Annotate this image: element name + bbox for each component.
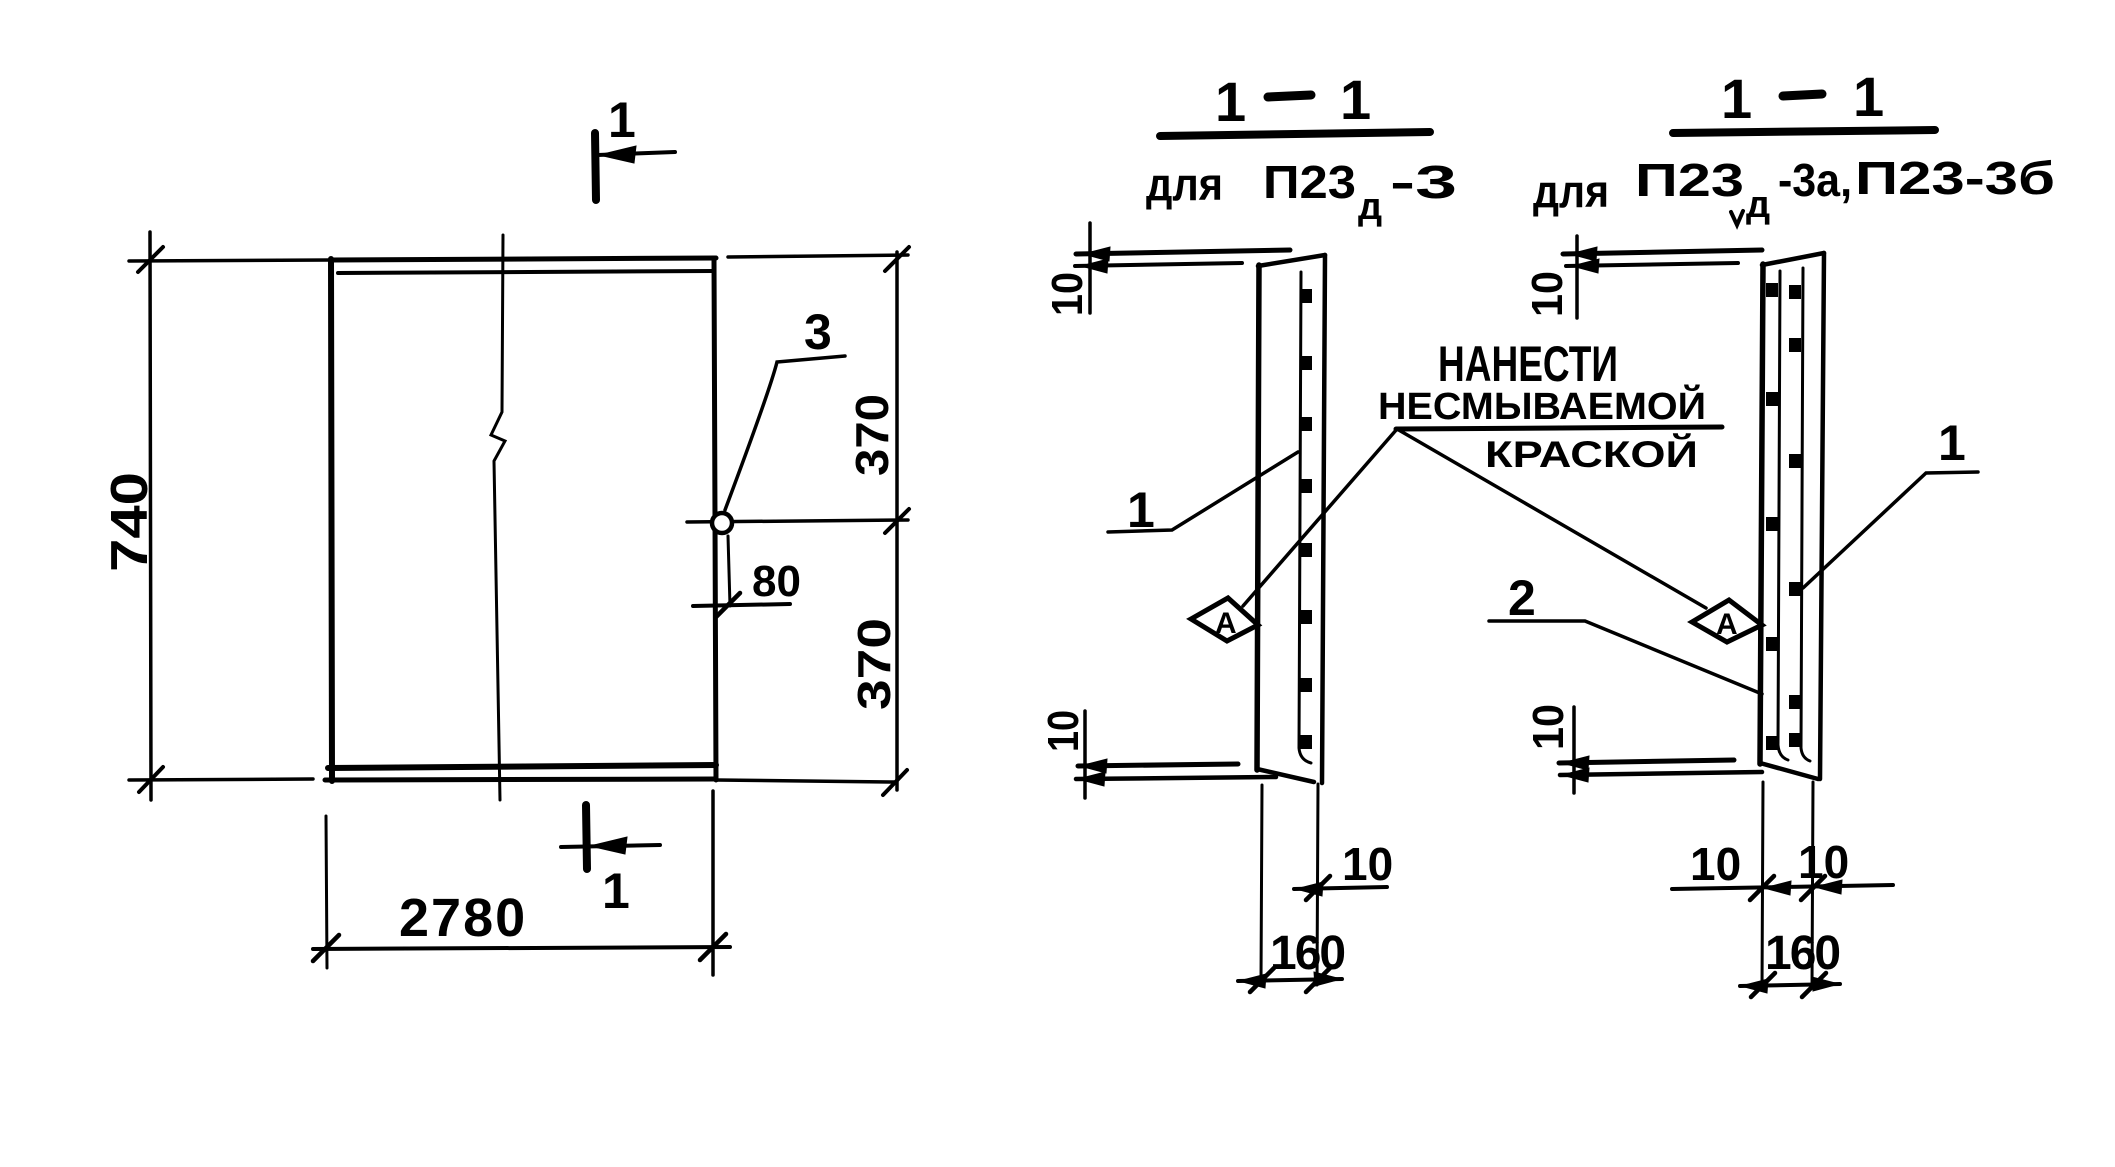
strip (sec2): right edge — [1820, 253, 1824, 779]
svg-text:3: 3 — [804, 304, 832, 360]
strip (sec1): top edge — [1258, 255, 1325, 266]
svg-text:д: д — [1746, 184, 1770, 226]
svg-text:1: 1 — [1721, 67, 1752, 130]
dimension 2780: dimension line — [313, 947, 730, 949]
dimension 80: extension below hole — [728, 536, 730, 606]
diamond mark A (sec2) — [1692, 600, 1762, 642]
dimension 740: dimension line — [150, 232, 151, 800]
svg-text:-3: -3 — [1390, 156, 1457, 208]
svg-text:2: 2 — [1508, 570, 1536, 626]
svg-text:10: 10 — [1342, 838, 1393, 890]
svg-text:2780: 2780 — [399, 888, 527, 948]
dimension 80: tick — [716, 593, 740, 617]
leader 1 (sec1): line — [1108, 452, 1298, 532]
rebar B (sec2): bar line — [1801, 268, 1810, 761]
bottom-left dim 10 (sec1): line a — [1078, 764, 1238, 766]
svg-text:10: 10 — [1043, 272, 1092, 316]
svg-text:д: д — [1358, 186, 1382, 228]
svg-text:1: 1 — [602, 863, 630, 919]
svg-text:НЕСМЫВАЕМОЙ: НЕСМЫВАЕМОЙ — [1378, 383, 1706, 428]
svg-text:для: для — [1146, 158, 1223, 210]
panel outline right edge — [714, 259, 716, 780]
header 1-1 (section 1): underline — [1160, 132, 1430, 136]
rebar A (sec2): dots — [1766, 283, 1778, 750]
dim 10 bottom-right (sec1): line — [1294, 887, 1387, 889]
top dim 10 (sec1): extension line — [1088, 223, 1092, 313]
strip (sec2): bottom edge — [1760, 763, 1818, 779]
svg-text:П23: П23 — [1263, 156, 1356, 208]
top dim 10 (sec1): line a — [1076, 250, 1290, 254]
hole leader line to 3 — [725, 356, 845, 510]
svg-text:1: 1 — [1340, 68, 1371, 131]
leader to diamond 1 — [1243, 429, 1397, 606]
diamond mark A (sec1) — [1191, 598, 1258, 641]
svg-text:740: 740 — [101, 472, 159, 572]
panel outline bottom edge (double line) — [328, 765, 716, 768]
svg-text:160: 160 — [1270, 927, 1344, 980]
svg-text:370: 370 — [846, 394, 898, 476]
dimension 740: extension line top — [129, 260, 331, 261]
dims 10|10 (sec2): line — [1672, 885, 1893, 889]
bottom-left dim 10 (sec1): line b — [1076, 777, 1276, 779]
top dim 10 (sec2): line b — [1566, 263, 1738, 266]
svg-text:80: 80 — [752, 557, 801, 606]
leader 1 (sec2): line — [1803, 472, 1978, 588]
right dimension line 370/370 — [895, 252, 899, 790]
dimension 80: dimension line — [693, 604, 790, 606]
svg-text:А: А — [1215, 607, 1237, 640]
svg-text:П23-3б: П23-3б — [1855, 152, 2055, 204]
strip (sec1): bottom edge — [1257, 769, 1314, 782]
header 1-1 (section 1): dash — [1268, 95, 1311, 97]
header 1-1 (section 2): dash — [1783, 94, 1822, 96]
svg-text:П23: П23 — [1635, 154, 1744, 206]
svg-text:1: 1 — [1215, 70, 1246, 133]
right dimension: extension line top (panel to dim line) — [728, 255, 908, 257]
top dim 10 (sec2): line a — [1563, 250, 1762, 254]
svg-text:-3а,: -3а, — [1778, 154, 1852, 206]
strip (sec2): left edge — [1760, 264, 1763, 764]
strip (sec2): top edge — [1762, 253, 1824, 265]
panel outline left edge — [331, 259, 332, 781]
note text underline / leader bar — [1396, 427, 1722, 429]
right dimension: tick top — [885, 247, 909, 271]
dimension 740: extension line bottom — [129, 779, 313, 780]
svg-text:370: 370 — [848, 618, 900, 710]
svg-text:А: А — [1716, 608, 1738, 641]
svg-text:НАНЕСТИ: НАНЕСТИ — [1438, 336, 1618, 392]
dimension 740: tick bottom — [139, 767, 163, 792]
svg-text:10: 10 — [1039, 710, 1088, 752]
bottom-left dim 10 (sec2): line a — [1559, 760, 1734, 763]
svg-text:для: для — [1533, 165, 1609, 217]
extension lines below (sec2) — [1762, 782, 1763, 990]
dim 160 (sec2): line — [1740, 984, 1840, 986]
bottom-left dim 10 (sec1): extension line — [1083, 711, 1087, 798]
svg-text:КРАСКОЙ: КРАСКОЙ — [1485, 433, 1698, 475]
leader to diamond 2 — [1397, 429, 1706, 608]
rebar A (sec2): bar line — [1778, 271, 1788, 760]
rebar (sec1): bar line with hook — [1299, 272, 1311, 763]
section mark top: arrow line — [598, 152, 675, 155]
right dimension: tick mid — [885, 509, 909, 533]
check mark above strip (sec2) — [1731, 211, 1743, 225]
dimension 2780: tick right — [700, 934, 726, 960]
dimension 740: tick top — [138, 247, 163, 272]
section mark top: vertical stroke — [595, 133, 596, 200]
dimension 2780: extension line left — [326, 816, 327, 968]
right dimension: mid extension line through hole — [687, 520, 908, 522]
panel centerline with break mark — [491, 235, 505, 800]
top dim 10 (sec2): extension line — [1575, 236, 1579, 318]
dim 160 (sec1): line — [1238, 979, 1342, 981]
top dim 10 (sec1): line b — [1075, 263, 1242, 266]
svg-text:10: 10 — [1523, 271, 1572, 317]
hole circle — [712, 513, 732, 533]
bottom-left dim 10 (sec2): extension line — [1572, 707, 1576, 793]
rebar B (sec2): dots — [1789, 285, 1801, 747]
svg-text:10: 10 — [1690, 838, 1741, 890]
leader 2 (sec2): line — [1489, 621, 1762, 694]
header 1-1 (section 2): underline — [1673, 130, 1935, 133]
dimension 2780: extension line right — [711, 791, 715, 975]
right dimension: extension line bottom (panel to dim line) — [716, 780, 894, 782]
rebar (sec1): dots — [1300, 289, 1312, 749]
svg-text:1: 1 — [1853, 65, 1884, 128]
section mark bottom: vertical stroke — [586, 805, 587, 869]
strip (sec1): left edge — [1257, 265, 1259, 770]
dimension 2780: tick left — [313, 935, 339, 961]
svg-text:10: 10 — [1524, 704, 1573, 750]
bottom-left dim 10 (sec2): line b — [1560, 772, 1762, 775]
right dimension: tick bottom — [883, 770, 907, 795]
strip (sec1): right edge — [1322, 255, 1325, 783]
svg-text:1: 1 — [608, 92, 636, 148]
extension lines below (sec1) — [1261, 785, 1262, 982]
svg-text:1: 1 — [1938, 415, 1966, 471]
panel outline top edge (double line) — [331, 258, 716, 260]
section mark bottom: arrow line — [561, 845, 660, 847]
